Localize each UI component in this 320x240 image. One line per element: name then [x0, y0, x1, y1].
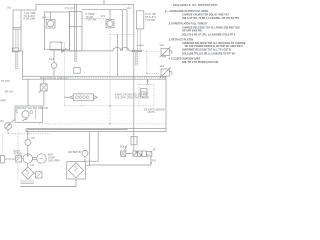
pump circle — [23, 154, 32, 163]
svg-text:FLT: FLT — [31, 164, 36, 167]
svg-text:RV: RV — [1, 120, 5, 123]
svg-text:OVERRIDE RELEASE TO7 ALL TP LO: OVERRIDE RELEASE TO7 ALL TP LOST B — [182, 49, 231, 52]
platen diagonal tick — [61, 48, 66, 53]
svg-text:OF THE POWER DRAPE B ON TOP OF: OF THE POWER DRAPE B ON TOP OF LIMIT SW … — [185, 45, 244, 48]
V6 top marks — [124, 147, 155, 151]
svg-text:STRNR: STRNR — [14, 152, 23, 155]
drain dashed x2.5 — [2, 134, 4, 156]
rod tail C3 — [132, 50, 141, 65]
riser V4 — [27, 79, 29, 106]
cylinder C1 — [12, 10, 21, 52]
rod below C2 — [75, 51, 77, 62]
relief RV1 — [5, 123, 12, 130]
svg-text:UNITS: UNITS — [148, 111, 156, 114]
wire vertical x117 — [117, 35, 119, 77]
wire vertical x122 — [122, 10, 124, 51]
gauge G1 stem — [50, 12, 52, 19]
svg-text:SEQUENCE OF OPERATION:: SEQUENCE OF OPERATION: — [173, 3, 218, 7]
sol A drop — [43, 91, 45, 106]
cylinder C3 — [137, 11, 144, 51]
svg-text:PMP: PMP — [1, 100, 7, 103]
pump drop — [27, 163, 29, 167]
wire C1 bottom to tank bus — [19, 51, 23, 76]
gauge PG1 drop — [27, 145, 29, 154]
filter box FB — [67, 162, 86, 180]
DP switch component — [141, 89, 148, 98]
wire to V2 — [82, 10, 110, 20]
flow control VA1 — [160, 47, 172, 58]
pilot dashed y124 — [39, 123, 166, 124]
motor circle — [37, 154, 46, 163]
DP drop from band — [146, 79, 148, 85]
tank top line band — [23, 76, 167, 80]
RV1 link — [11, 120, 16, 123]
comb hatch under F1 — [21, 180, 33, 184]
DP switch dashed box — [139, 85, 154, 106]
inner box right — [86, 132, 99, 162]
svg-text:VA2: VA2 — [160, 65, 165, 68]
svg-text:3. RETRACT PLATEN: 3. RETRACT PLATEN — [169, 38, 194, 41]
platen line with arrow — [61, 50, 113, 52]
flow control VA2 — [160, 67, 172, 78]
valve V4 — [15, 106, 43, 122]
platen block under rod — [74, 68, 80, 74]
svg-text:2. UPPER PLATEN FULL THRUST: 2. UPPER PLATEN FULL THRUST — [169, 23, 208, 26]
drain return line — [90, 164, 152, 166]
enclosure box around gauge — [45, 12, 70, 49]
svg-text:PMP RLF VLV SET 2000 PSI: PMP RLF VLV SET 2000 PSI — [16, 107, 48, 110]
wire top bus — [36, 4, 134, 10]
platen line hop — [113, 47, 121, 51]
wire right riser — [133, 4, 135, 150]
RV1 drop — [7, 129, 9, 133]
svg-text:VA1: VA1 — [160, 44, 165, 47]
breather circle — [82, 150, 88, 156]
strainer box — [16, 156, 22, 162]
svg-text:SOL B: SOL B — [120, 145, 127, 148]
arrowhead platen — [61, 50, 64, 52]
wire platen line right — [129, 50, 134, 52]
gauge G1 — [46, 19, 55, 28]
rod hatch below C1 — [15, 52, 17, 69]
valve V2 — [106, 20, 114, 28]
svg-text:SOLS B-3 B4, AT JPL, LA ASSURE: SOLS B-3 B4, AT JPL, LA ASSURE (T2) B TP… — [182, 33, 236, 36]
riser to sol A valve — [43, 79, 45, 83]
svg-text:P 1/8 GAB: P 1/8 GAB — [24, 18, 36, 21]
sol A valve — [38, 82, 47, 93]
return riser x89.5 — [86, 132, 91, 166]
svg-text:T 1/4" NB: T 1/4" NB — [86, 19, 97, 22]
bottom return line — [20, 179, 76, 187]
svg-text:TK TOP: TK TOP — [1, 80, 10, 83]
pilot dashed V2 down — [109, 28, 111, 124]
svg-text:1— AR DECADE PLATES FULL OPEN: 1— AR DECADE PLATES FULL OPEN — [165, 10, 209, 13]
pilot dashed to VA1/VA2 — [134, 51, 159, 74]
gauge GA1 — [51, 63, 57, 69]
drain dashed left — [8, 133, 50, 134]
svg-text:SOL TB 1 TH TB (B13) GP CAM: SOL TB 1 TH TB (B13) GP CAM — [182, 61, 218, 64]
valve V3 box — [50, 42, 62, 50]
V6 drain drop — [150, 156, 152, 165]
svg-text:CHARGE VALVES TOP SOL B7 AND T: CHARGE VALVES TOP SOL B7 AND TK7 — [182, 14, 229, 17]
drain dashed x18 — [17, 134, 19, 180]
filter diamond F1 — [22, 167, 34, 179]
tank top plate band B — [26, 129, 166, 132]
svg-text:AIR BRTHR: AIR BRTHR — [68, 151, 81, 154]
wire cyl1 top port — [21, 9, 36, 11]
svg-text:VLV: VLV — [101, 15, 106, 18]
sequence of operation text — [165, 3, 246, 64]
svg-text:AR VLV: AR VLV — [5, 91, 14, 94]
svg-text:1800 RPM: 1800 RPM — [48, 160, 60, 163]
strainer to pump — [22, 158, 23, 160]
bank left port — [64, 96, 69, 98]
valve V6 assembly — [121, 151, 152, 156]
breather stem — [84, 156, 86, 161]
svg-text:CYL 1N: CYL 1N — [65, 7, 74, 10]
svg-text:VLV: VLV — [42, 16, 47, 19]
bank drop dashed — [81, 100, 83, 106]
svg-text:4. CLOSED SHADOW LIMIT: 4. CLOSED SHADOW LIMIT — [169, 57, 201, 60]
left tiny box — [1, 156, 16, 163]
pilot dashed from cyl down left — [63, 43, 65, 106]
svg-text:GA1: GA1 — [49, 58, 55, 61]
valve bank V5 — [70, 92, 98, 100]
pump pressure line — [28, 129, 127, 140]
svg-text:AR APP 2000 PSI: AR APP 2000 PSI — [182, 29, 202, 32]
svg-text:SOLS ST (B1, T3 B3, L1 ASSURE: SOLS ST (B1, T3 B3, L1 ASSURE +TB TP) B2… — [182, 17, 240, 20]
svg-text:SOLS (B6 TP), (L8 JPL) LI ASSU: SOLS (B6 TP), (L8 JPL) LI ASSURE TB TP* … — [182, 52, 236, 55]
svg-text:VLV: VLV — [127, 7, 132, 10]
gauge GA1 drop — [53, 68, 55, 76]
cylinder C2 — [69, 4, 82, 51]
right return riser — [165, 79, 167, 128]
svg-text:T 2 B NB: T 2 B NB — [145, 19, 155, 22]
svg-text:PG: PG — [32, 137, 36, 140]
shaft — [33, 157, 37, 159]
inline component on riser — [131, 137, 137, 145]
drain valve right of F1 — [34, 172, 42, 178]
svg-text:VLV: VLV — [7, 7, 12, 10]
gauge GA1 stem — [53, 50, 55, 63]
pilot dashed from C2 — [82, 17, 106, 19]
pilot dashed branch right — [110, 34, 134, 36]
pilot dashed main horizontal — [64, 105, 139, 106]
gauge PG1 — [25, 140, 31, 146]
